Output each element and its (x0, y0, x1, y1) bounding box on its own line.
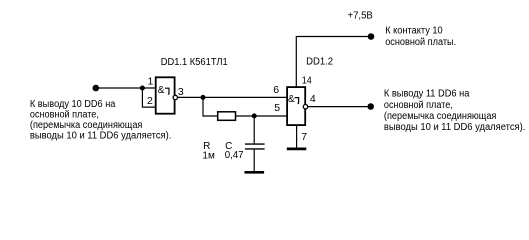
capacitor C bottom plate (245, 148, 265, 150)
svg-text:выводы 10 и 11 DD6 удаляется).: выводы 10 и 11 DD6 удаляется). (30, 130, 172, 141)
svg-text:основной плате,: основной плате, (30, 109, 99, 120)
svg-text:(перемычка соединяющая: (перемычка соединяющая (384, 111, 497, 122)
svg-text:+7,5В: +7,5В (348, 10, 374, 21)
svg-text:К выводу 11 DD6 на: К выводу 11 DD6 на (384, 89, 470, 100)
svg-text:14: 14 (302, 75, 312, 87)
svg-text:5: 5 (274, 102, 280, 114)
ground bar under pin 7 (287, 148, 307, 151)
svg-text:2: 2 (147, 95, 153, 107)
node: +7,5V terminal (368, 33, 375, 40)
node: right output terminal (367, 103, 374, 110)
svg-text:(перемычка соединяющая: (перемычка соединяющая (30, 120, 142, 131)
svg-text:1м: 1м (202, 150, 215, 161)
junction: pin1/pin2 tie (140, 86, 145, 91)
inversion bubble DD1.2 pin 4 (303, 105, 307, 109)
wire: capacitor to ground (253, 150, 255, 171)
node: left input terminal (93, 85, 100, 92)
junction: RC node (252, 113, 257, 118)
svg-text:DD1.2: DD1.2 (306, 57, 333, 68)
ground bar under capacitor (245, 171, 265, 174)
svg-text:DD1.1 К561ТЛ1: DD1.1 К561ТЛ1 (161, 57, 228, 68)
gate DD1.1 body (156, 77, 175, 113)
wire: down to resistor (203, 97, 218, 116)
wire: branch to pin 2 (142, 88, 156, 107)
gate DD1.2 hysteresis mark (295, 98, 299, 104)
svg-text:основной платы.: основной платы. (385, 37, 456, 48)
svg-text:0,47: 0,47 (225, 150, 244, 161)
svg-text:&: & (158, 85, 165, 96)
svg-text:7: 7 (301, 131, 307, 143)
inversion bubble DD1.1 pin 3 (173, 95, 177, 99)
wire: pin 14 up to +7,5V rail (296, 37, 371, 88)
svg-text:основной плате,: основной плате, (384, 100, 453, 111)
capacitor C top plate (245, 143, 265, 145)
svg-text:К контакту 10: К контакту 10 (385, 25, 443, 36)
gate DD1.2 body (287, 87, 305, 125)
wire: pin 7 down to ground (296, 125, 298, 148)
wire: DD1.2 output to right terminal (308, 106, 371, 108)
wire: DD1.1 output to DD1.2 pin 6 (178, 96, 288, 98)
svg-text:выводы 10 и 11 DD6 удаляется).: выводы 10 и 11 DD6 удаляется). (384, 122, 526, 133)
svg-text:&: & (288, 94, 295, 105)
resistor R body (218, 112, 236, 121)
svg-text:1: 1 (148, 76, 154, 88)
wire: input terminal to pin 1 (96, 87, 157, 89)
svg-text:3: 3 (178, 86, 184, 98)
wire: resistor to pin 5 (236, 115, 289, 117)
svg-text:4: 4 (310, 93, 316, 105)
wire: down to capacitor (253, 116, 255, 143)
gate DD1.1 hysteresis mark (165, 88, 169, 94)
svg-text:6: 6 (273, 84, 279, 96)
svg-text:К выводу 10 DD6 на: К выводу 10 DD6 на (30, 99, 116, 110)
junction: output node to RC (201, 95, 206, 100)
